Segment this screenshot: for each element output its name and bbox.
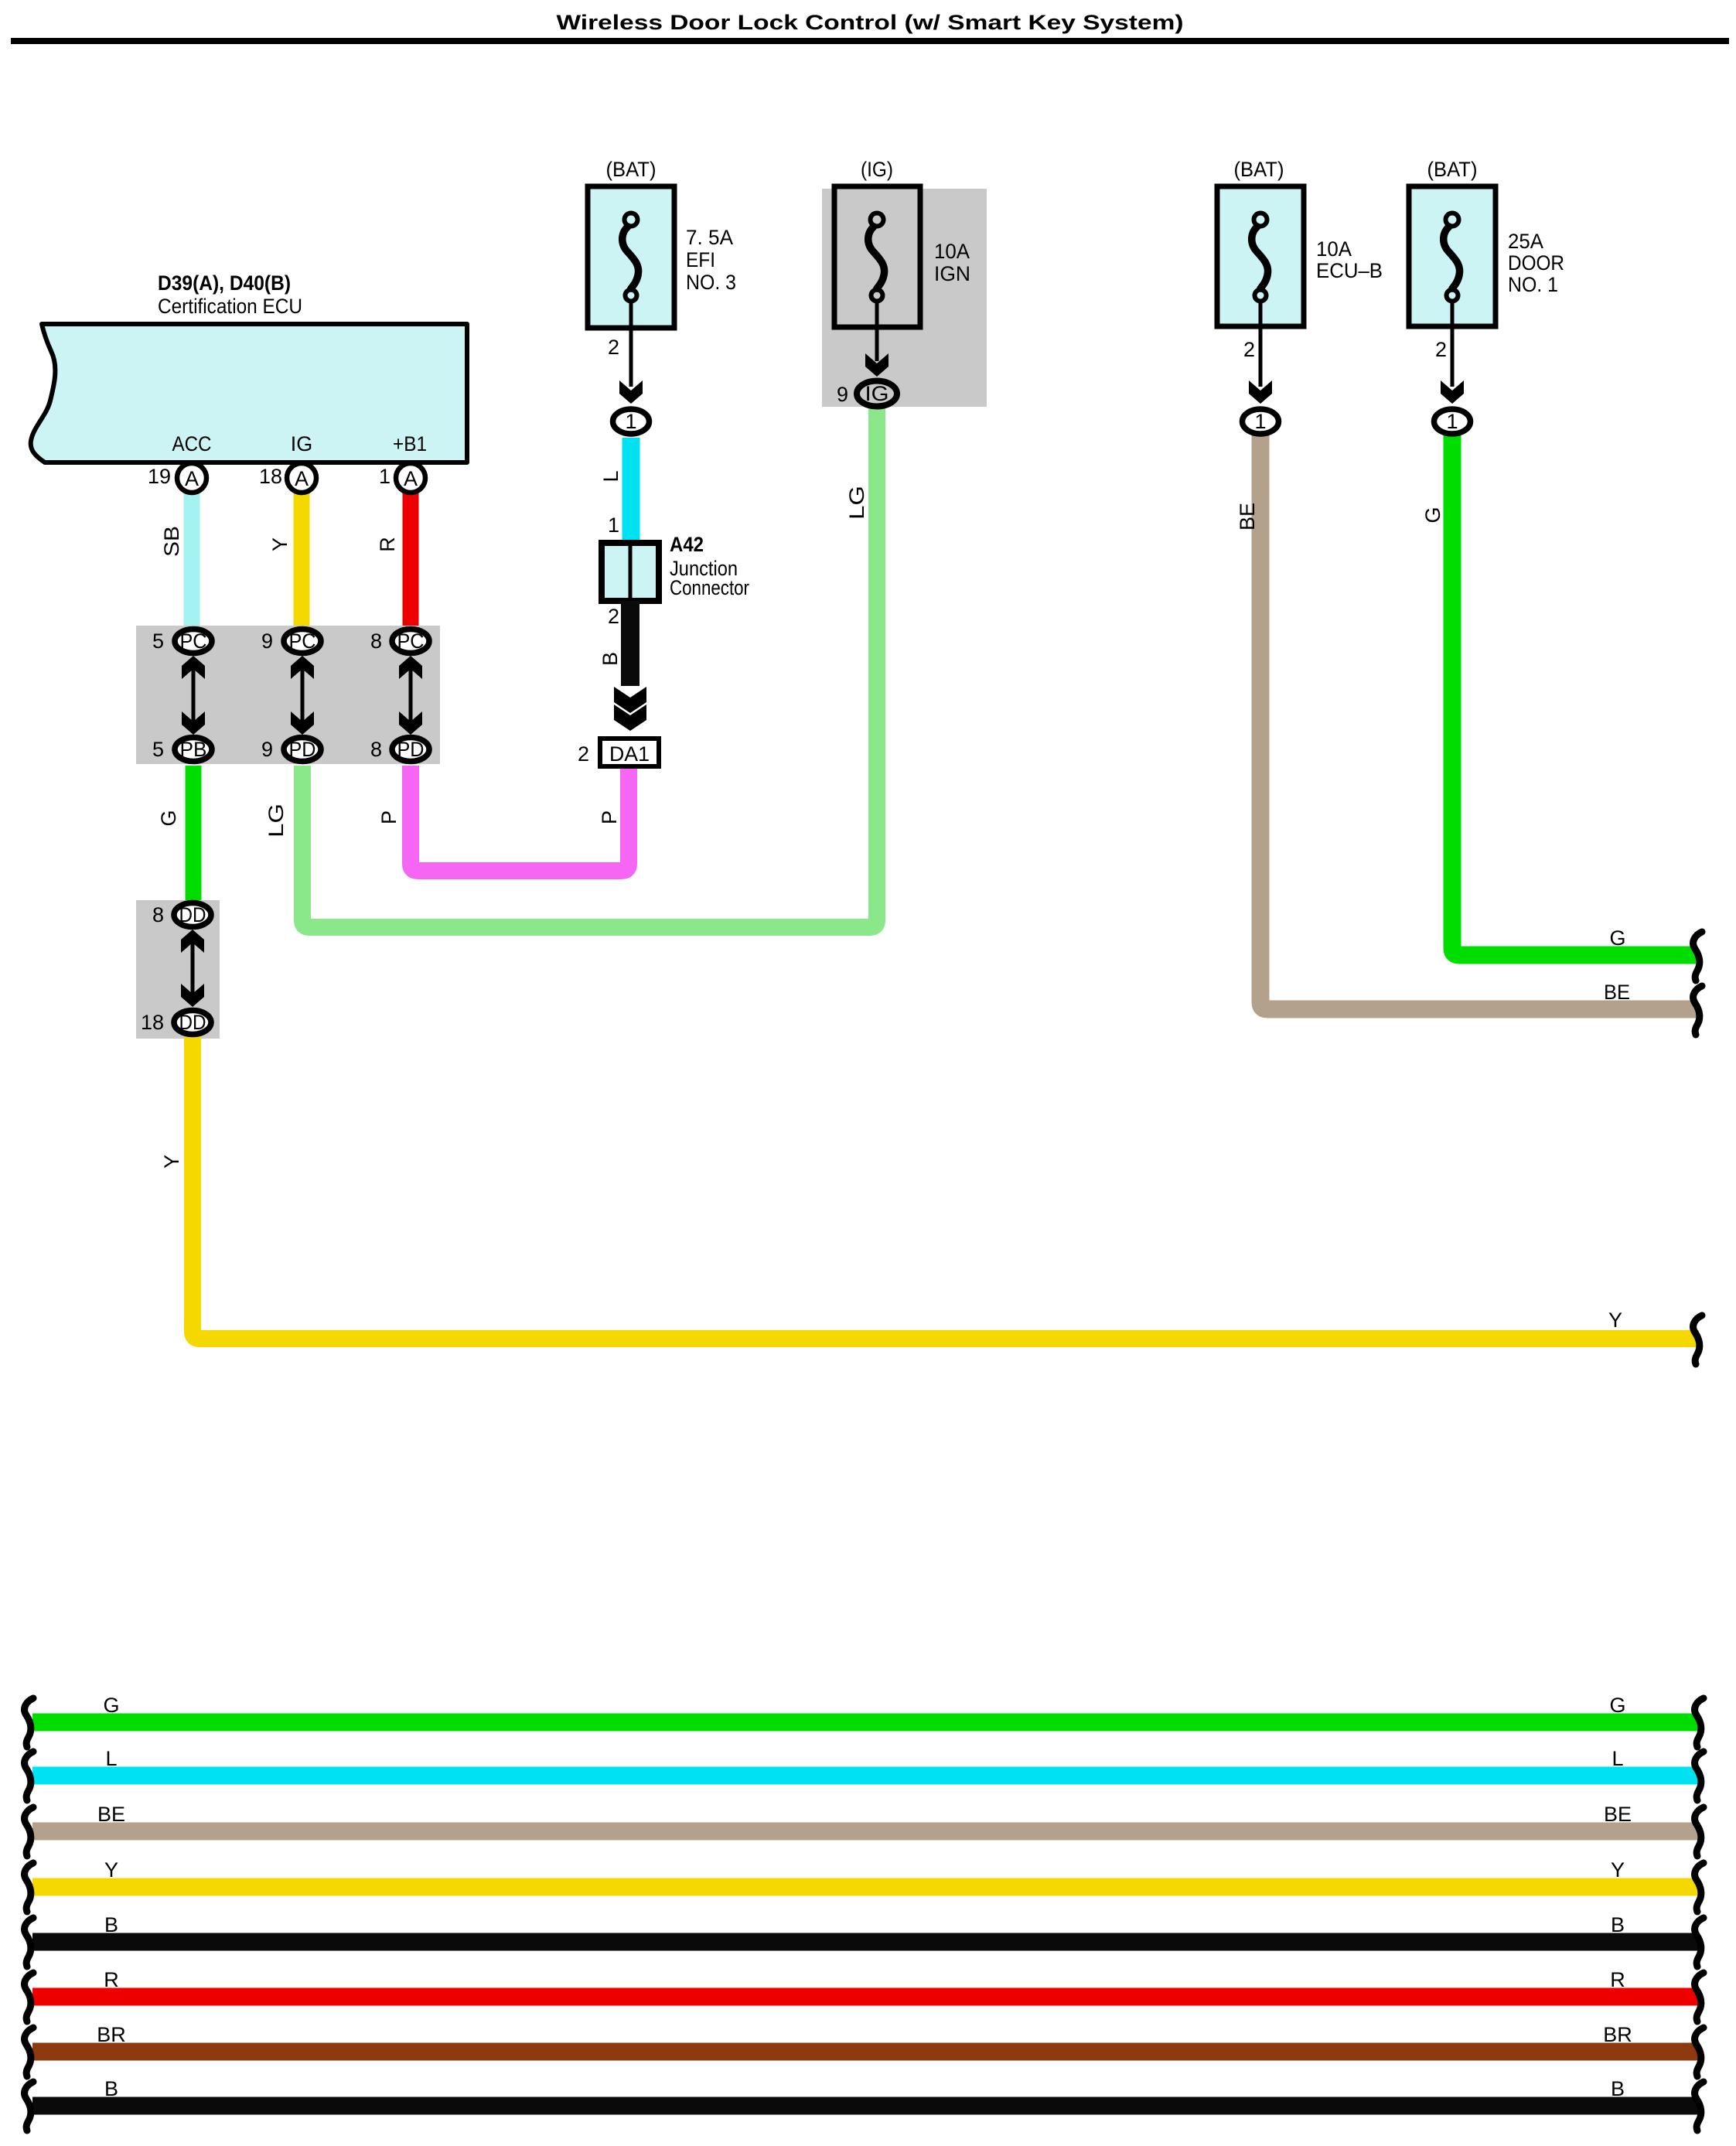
pin 19 connector A bbox=[177, 463, 206, 493]
svg-text:18: 18 bbox=[141, 1011, 164, 1034]
break symbol BE left bbox=[25, 1807, 33, 1856]
wire B page-continuation bbox=[32, 1933, 1700, 1951]
svg-text:PC: PC bbox=[180, 629, 207, 653]
svg-text:8: 8 bbox=[370, 738, 382, 761]
node 1 EFI bbox=[613, 409, 650, 434]
wire BE node1 to break bbox=[1260, 433, 1697, 1009]
wire BR page-continuation bbox=[32, 2043, 1700, 2061]
wire Y 18DD down-right to break bbox=[193, 1029, 1699, 1339]
break symbol wire Y right bbox=[1693, 1315, 1702, 1364]
break symbol L left bbox=[25, 1752, 33, 1800]
break symbol wire G right bbox=[1693, 932, 1702, 981]
wire R page-continuation bbox=[32, 1988, 1700, 2006]
node 9 IG bbox=[857, 381, 897, 407]
svg-text:IG: IG bbox=[865, 382, 889, 405]
svg-text:9: 9 bbox=[261, 629, 273, 653]
svg-text:P: P bbox=[598, 810, 621, 824]
svg-text:(BAT): (BAT) bbox=[1234, 158, 1284, 181]
wire L node1 to A42 bbox=[622, 438, 640, 545]
svg-text:Wireless Door Lock Control (w/: Wireless Door Lock Control (w/ Smart Key… bbox=[557, 11, 1184, 34]
svg-text:Y: Y bbox=[268, 537, 292, 551]
svg-text:9: 9 bbox=[837, 383, 848, 406]
svg-text:PC: PC bbox=[289, 629, 316, 653]
break symbol B right bbox=[1695, 2082, 1704, 2131]
svg-text:5: 5 bbox=[152, 629, 164, 653]
svg-text:SB: SB bbox=[160, 526, 183, 557]
svg-text:10A: 10A bbox=[934, 240, 970, 263]
wire Y pin18A to 9PC bbox=[294, 487, 310, 638]
svg-text:1: 1 bbox=[379, 465, 391, 488]
svg-text:DOOR: DOOR bbox=[1508, 251, 1564, 275]
svg-text:B: B bbox=[104, 2077, 118, 2100]
wire L page-continuation bbox=[32, 1767, 1700, 1785]
svg-text:2: 2 bbox=[1243, 338, 1255, 361]
svg-text:BE: BE bbox=[97, 1803, 125, 1826]
svg-text:BE: BE bbox=[1236, 503, 1259, 531]
wire G page-continuation bbox=[32, 1714, 1700, 1731]
fuse 7.5A EFI NO.3 bbox=[588, 186, 674, 328]
break symbol wire BE right bbox=[1693, 986, 1702, 1035]
node 1 ECU-B bbox=[1243, 409, 1279, 434]
double chevron arrow into DA1 bbox=[614, 687, 646, 713]
svg-text:Y: Y bbox=[1608, 1308, 1622, 1332]
svg-text:P: P bbox=[377, 810, 401, 824]
node 1 DOOR bbox=[1434, 409, 1471, 434]
break symbol B left bbox=[25, 2082, 33, 2131]
break symbol G right bbox=[1695, 1698, 1704, 1747]
svg-text:ACC: ACC bbox=[172, 432, 212, 455]
svg-text:DD: DD bbox=[179, 1011, 206, 1034]
junction connector A42 bbox=[602, 543, 659, 601]
svg-text:LG: LG bbox=[845, 486, 868, 520]
arrow ECU-B fuse to node 1 bbox=[1259, 302, 1263, 387]
svg-text:NO. 3: NO. 3 bbox=[686, 271, 736, 294]
svg-text:PC: PC bbox=[397, 629, 425, 653]
break symbol B left bbox=[25, 1918, 33, 1967]
svg-text:D39(A), D40(B): D39(A), D40(B) bbox=[158, 271, 291, 295]
break symbol G left bbox=[25, 1698, 33, 1747]
wire BE page-continuation bbox=[32, 1823, 1700, 1841]
wire P 8PD to 2DA1 bbox=[411, 762, 629, 871]
break symbol Y right bbox=[1695, 1863, 1704, 1912]
break symbol B right bbox=[1695, 1918, 1704, 1967]
svg-text:B: B bbox=[1611, 1913, 1625, 1936]
break symbol BR right bbox=[1695, 2028, 1704, 2076]
svg-text:2: 2 bbox=[1435, 338, 1447, 361]
svg-text:8: 8 bbox=[370, 629, 382, 653]
arrow IGN fuse to 9IG bbox=[875, 302, 879, 361]
svg-text:8: 8 bbox=[152, 903, 164, 926]
junction block gray strip bbox=[136, 626, 440, 764]
svg-text:NO. 1: NO. 1 bbox=[1508, 273, 1558, 296]
svg-text:Y: Y bbox=[104, 1858, 118, 1882]
pin 1 connector A bbox=[396, 463, 425, 493]
gray block IGN bbox=[822, 189, 987, 407]
pin 18 connector A bbox=[287, 463, 316, 493]
svg-text:1: 1 bbox=[1254, 410, 1266, 433]
arrow DOOR fuse to node 1 bbox=[1451, 302, 1455, 387]
wire B page-continuation bbox=[32, 2097, 1700, 2115]
break symbol R left bbox=[25, 1973, 33, 2021]
svg-text:Connector: Connector bbox=[670, 576, 749, 599]
svg-text:(IG): (IG) bbox=[861, 158, 893, 181]
connector pair 8 PC / 8 PD bbox=[409, 665, 413, 725]
connector pair 5 PC / 5 PB bbox=[192, 665, 196, 725]
svg-text:(BAT): (BAT) bbox=[606, 158, 657, 181]
svg-text:PD: PD bbox=[397, 738, 425, 761]
arrow EFI fuse to node 1 bbox=[629, 302, 633, 387]
svg-text:Certification ECU: Certification ECU bbox=[158, 295, 302, 318]
svg-text:(BAT): (BAT) bbox=[1427, 158, 1478, 181]
svg-text:ECU–B: ECU–B bbox=[1316, 259, 1383, 282]
svg-text:G: G bbox=[1609, 1694, 1625, 1717]
svg-text:5: 5 bbox=[152, 738, 164, 761]
svg-text:A: A bbox=[404, 467, 418, 490]
svg-text:BR: BR bbox=[1603, 2023, 1632, 2046]
wire R pin1A to 8PC bbox=[403, 487, 419, 638]
svg-text:1: 1 bbox=[1446, 410, 1458, 433]
connector pair 9 PC / 9 PD bbox=[301, 665, 305, 725]
svg-text:A42: A42 bbox=[670, 533, 704, 556]
svg-text:19: 19 bbox=[148, 465, 171, 488]
svg-text:DA1: DA1 bbox=[609, 742, 650, 766]
svg-text:B: B bbox=[104, 1913, 118, 1936]
svg-text:18: 18 bbox=[259, 465, 282, 488]
connector DA1 bbox=[600, 739, 659, 766]
svg-text:2: 2 bbox=[608, 336, 619, 359]
svg-text:A: A bbox=[295, 467, 309, 490]
svg-text:25A: 25A bbox=[1508, 230, 1543, 253]
break symbol R right bbox=[1695, 1973, 1704, 2021]
svg-text:G: G bbox=[1421, 507, 1444, 523]
break symbol BR left bbox=[25, 2028, 33, 2076]
svg-text:L: L bbox=[1612, 1747, 1623, 1770]
svg-text:PB: PB bbox=[180, 738, 207, 761]
svg-text:PD: PD bbox=[289, 738, 316, 761]
wire B A42 to DA1 bbox=[621, 601, 639, 686]
svg-text:B: B bbox=[1611, 2077, 1625, 2100]
svg-text:DD: DD bbox=[179, 903, 206, 926]
svg-text:1: 1 bbox=[608, 513, 619, 537]
svg-text:G: G bbox=[157, 810, 180, 826]
wire G 5PB to 8DD bbox=[186, 766, 202, 905]
fuse 25A DOOR NO.1 bbox=[1409, 186, 1496, 326]
svg-text:Y: Y bbox=[160, 1155, 183, 1169]
svg-text:EFI: EFI bbox=[686, 248, 715, 271]
ECU U1 Certification ECU box bbox=[31, 324, 467, 462]
svg-text:9: 9 bbox=[261, 738, 273, 761]
svg-text:Y: Y bbox=[1611, 1858, 1625, 1882]
junction block DD gray bbox=[136, 900, 220, 1039]
svg-text:R: R bbox=[104, 1968, 119, 1991]
wire G node1 to break bbox=[1452, 433, 1696, 955]
svg-text:B: B bbox=[599, 652, 622, 666]
fuse 10A IGN bbox=[834, 186, 920, 327]
svg-text:IGN: IGN bbox=[934, 262, 970, 285]
svg-text:L: L bbox=[105, 1747, 117, 1770]
svg-text:2: 2 bbox=[578, 742, 589, 766]
break symbol L right bbox=[1695, 1752, 1704, 1800]
svg-text:LG: LG bbox=[264, 803, 288, 838]
svg-text:G: G bbox=[103, 1694, 119, 1717]
svg-text:1: 1 bbox=[625, 410, 636, 433]
svg-text:A: A bbox=[185, 467, 199, 490]
svg-text:BE: BE bbox=[1604, 981, 1630, 1004]
svg-text:BE: BE bbox=[1604, 1803, 1632, 1826]
fuse 10A ECU-B bbox=[1217, 186, 1304, 326]
svg-text:10A: 10A bbox=[1316, 237, 1352, 261]
break symbol Y left bbox=[25, 1863, 33, 1912]
wire LG 9PD to 9IG bbox=[302, 402, 877, 927]
svg-text:G: G bbox=[1609, 926, 1625, 950]
svg-text:IG: IG bbox=[291, 432, 313, 455]
svg-text:BR: BR bbox=[97, 2023, 126, 2046]
wire SB pin19A to 5PC bbox=[184, 487, 200, 638]
svg-text:L: L bbox=[599, 470, 622, 482]
title rule bbox=[11, 38, 1729, 44]
svg-text:2: 2 bbox=[608, 605, 619, 628]
connector pair 8 DD / 18 DD bbox=[191, 939, 195, 998]
svg-text:+B1: +B1 bbox=[393, 432, 427, 455]
svg-text:R: R bbox=[1610, 1968, 1625, 1991]
wire Y page-continuation bbox=[32, 1878, 1700, 1896]
svg-text:7. 5A: 7. 5A bbox=[686, 226, 733, 249]
svg-text:R: R bbox=[376, 537, 399, 552]
break symbol BE right bbox=[1695, 1807, 1704, 1856]
